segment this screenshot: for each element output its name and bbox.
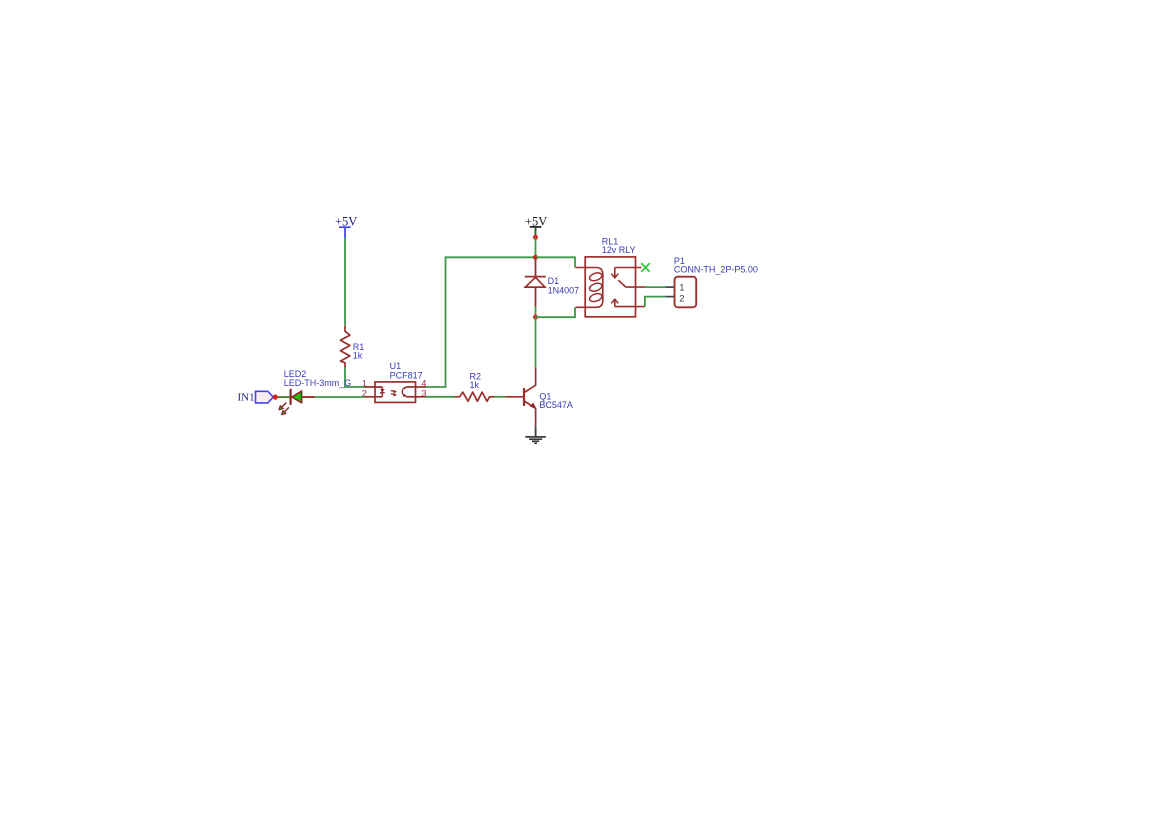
junction lower node bbox=[533, 315, 538, 320]
junction dot below +5V bbox=[533, 235, 538, 240]
wire lower node to Q1 collector bbox=[535, 317, 537, 367]
port IN1 bbox=[238, 391, 274, 403]
ground bbox=[525, 427, 546, 444]
no-connect X on relay NC pin bbox=[641, 263, 650, 272]
power +5V (left) bbox=[335, 215, 357, 238]
svg-text:LED-TH-3mm_G: LED-TH-3mm_G bbox=[284, 378, 352, 388]
svg-text:BC547A: BC547A bbox=[539, 400, 573, 410]
wire R2 to Q1 base bbox=[494, 396, 505, 398]
wire D1 anode to lower node bbox=[535, 306, 537, 317]
power +5V (center) bbox=[525, 215, 547, 238]
wire U1 pin 4 up to +5V rail node bbox=[426, 257, 536, 387]
svg-text:1k: 1k bbox=[470, 380, 480, 390]
wire lower node to relay coil bottom bbox=[536, 307, 576, 317]
wire +5V to R1 bbox=[344, 238, 346, 326]
svg-text:IN1: IN1 bbox=[238, 392, 255, 404]
wire LED2 to U1 pin 2 bbox=[315, 396, 366, 398]
resistor R2 bbox=[455, 392, 495, 401]
wire U1 pin 3 to R2 bbox=[426, 396, 456, 398]
relay RL1 bbox=[576, 257, 646, 317]
svg-text:1k: 1k bbox=[353, 351, 363, 361]
svg-text:2: 2 bbox=[362, 387, 367, 398]
diode D1 bbox=[524, 257, 546, 306]
wire +5V to rail node bbox=[535, 237, 537, 257]
svg-text:PCF817: PCF817 bbox=[390, 371, 423, 381]
svg-text:1: 1 bbox=[679, 282, 684, 293]
svg-text:2: 2 bbox=[679, 292, 684, 303]
optocoupler U1 bbox=[365, 382, 426, 403]
wire R1 to U1 pin 1 bbox=[345, 367, 365, 387]
wire IN1 to LED2 bbox=[278, 396, 290, 398]
wire relay common to P1 pin 1 bbox=[645, 286, 666, 288]
wire rail node to relay coil top bbox=[536, 257, 576, 267]
wire relay NO to P1 pin 2 bbox=[645, 297, 666, 307]
transistor Q1 bbox=[505, 367, 536, 426]
junction at IN1 bbox=[273, 395, 278, 400]
svg-text:U1: U1 bbox=[390, 361, 402, 371]
svg-text:12v RLY: 12v RLY bbox=[602, 245, 636, 255]
svg-text:CONN-TH_2P-P5.00: CONN-TH_2P-P5.00 bbox=[674, 265, 758, 275]
svg-text:1N4007: 1N4007 bbox=[548, 285, 580, 295]
connector P1 bbox=[666, 277, 697, 308]
junction +5V rail node bbox=[533, 255, 538, 260]
LED LED2 bbox=[279, 389, 315, 415]
resistor R1 bbox=[340, 326, 350, 367]
